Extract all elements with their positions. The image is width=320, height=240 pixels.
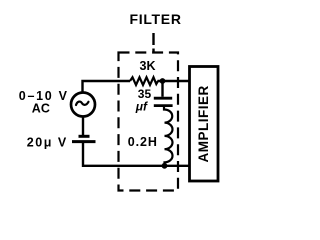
wire source to battery [82, 117, 84, 137]
wire junction to capacitor [161, 81, 163, 97]
wire top right (junction to amplifier) [158, 80, 190, 82]
wire bottom (battery to amplifier) [83, 143, 189, 166]
inductor L1 0.2H [164, 107, 173, 166]
capacitor C1 35uf bottom plate [154, 104, 173, 107]
filter pointer line [152, 33, 154, 52]
svg-text:FILTER: FILTER [130, 11, 182, 27]
svg-text:0.2H: 0.2H [128, 135, 158, 149]
resistor R1 3K [130, 77, 158, 85]
svg-text:AC: AC [32, 102, 50, 116]
amplifier box U1 [190, 67, 219, 182]
battery V2 long plate [72, 140, 96, 143]
wire top left (source to resistor) [83, 81, 131, 92]
svg-text:AMPLIFIER: AMPLIFIER [196, 85, 211, 162]
capacitor C1 35uf top plate [154, 97, 172, 100]
node junction bottom [162, 163, 168, 169]
node junction top [160, 78, 166, 84]
svg-text:μf: μf [135, 100, 148, 114]
svg-text:3K: 3K [140, 59, 156, 73]
filter dashed box [119, 53, 179, 191]
AC source sine symbol [76, 102, 89, 105]
battery V2 short plate [79, 135, 90, 138]
AC source V1 circle [71, 93, 95, 117]
svg-text:20μ V: 20μ V [27, 136, 68, 150]
